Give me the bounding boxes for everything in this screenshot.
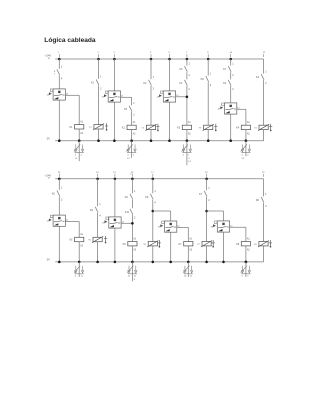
latching coil Y1 — [89, 124, 104, 130]
manual latch marker M3 — [214, 124, 217, 131]
wire C3 bottom to 0V — [170, 232, 172, 262]
wire node to C3 — [153, 211, 171, 221]
wire node to C4 — [207, 211, 224, 221]
wire C3 output to K7 coil — [177, 225, 189, 241]
contact K8 col7 — [201, 72, 212, 87]
wire C2 output to node — [121, 221, 132, 223]
svg-text:Lógica cableada: Lógica cableada — [44, 37, 96, 44]
wire B2 bottom to 0V — [113, 102, 115, 141]
wire B4 output to K4 coil — [237, 107, 246, 125]
column ticks and numbers (top section) — [58, 52, 266, 57]
wire col8 upper — [230, 59, 232, 66]
wire between contacts col8 — [230, 72, 232, 79]
0V rail (top section) — [47, 136, 264, 140]
relay coil K3 — [177, 121, 191, 135]
wire C1 bottom to 0V — [58, 226, 60, 262]
rail junction dots (top) — [58, 58, 232, 61]
contact K7 col8 — [223, 62, 234, 77]
wire C2 bottom to 0V — [114, 228, 116, 262]
latching coil Y5 — [88, 236, 103, 242]
svg-text:K11: K11 — [125, 211, 130, 214]
wire col3 upper — [113, 59, 115, 91]
contact K2 col8 — [223, 80, 234, 91]
wire B3 output to node — [176, 95, 187, 97]
latching coil Y8 — [254, 241, 269, 247]
wire col9 to 0V — [263, 130, 265, 141]
wire K2 coil to 0V — [131, 130, 133, 141]
manual latch marker M2 — [156, 124, 159, 131]
wire K6 coil to 0V — [131, 246, 133, 262]
contact mirror K3 — [182, 139, 192, 165]
wire col9 to latch coil — [263, 80, 265, 125]
wire col2 upper — [98, 59, 100, 79]
contact K3 col6 — [179, 62, 190, 77]
wire between contacts col6 — [186, 72, 188, 79]
relay coil K7 — [179, 237, 193, 251]
latching coil Y6 — [143, 241, 158, 247]
wire col15 upper — [114, 179, 116, 217]
wire B2 output — [121, 95, 132, 105]
svg-text:0V: 0V — [47, 136, 50, 140]
wire B1 bottom to 0V — [58, 100, 60, 141]
wire col19 upper — [206, 179, 208, 191]
latching coil Y4 — [254, 124, 269, 130]
contact K6 col16 — [125, 190, 136, 199]
contact mirror K8 — [241, 261, 251, 278]
contact K5 col13 — [52, 187, 63, 202]
wire K3 coil to 0V — [186, 130, 188, 141]
wire to C1 — [58, 196, 60, 215]
node rung7 — [152, 200, 155, 242]
wire col7 to 0V — [207, 130, 209, 141]
wire col17 to 0V — [152, 246, 154, 262]
relay coil K5 — [69, 233, 83, 247]
manual latch marker M5 — [104, 236, 107, 243]
block B2 — [102, 91, 121, 102]
contact K2 col4 — [143, 76, 154, 91]
block C4 — [211, 221, 230, 232]
node rung6 join — [131, 215, 134, 242]
wire K8 coil to 0V — [245, 246, 247, 262]
node rung8 — [205, 197, 208, 242]
wire C4 bottom to 0V — [223, 232, 225, 262]
S1 designator — [54, 71, 56, 76]
contact K9 col17 — [145, 190, 156, 205]
wire col7 to latch coil — [207, 82, 209, 125]
wire K5 coil to 0V — [78, 242, 80, 262]
relay coil K8 — [236, 237, 250, 251]
wire B4 bottom to 0V — [230, 114, 232, 141]
contact K6 col14 — [90, 203, 101, 218]
contact K7 col19 — [199, 187, 210, 202]
wire to B4 — [230, 86, 232, 103]
contact mirror K2 — [126, 139, 136, 159]
contact K11 col16 — [125, 209, 136, 220]
wire col7 upper — [207, 59, 209, 76]
wire C1 output to K5 coil — [66, 220, 80, 238]
wire col20 from rail end — [263, 179, 265, 197]
wire col20 to latch coil — [263, 203, 265, 242]
0V rail (bottom section) — [47, 258, 264, 262]
wire col17 upper — [152, 179, 154, 194]
0V junction dots (top) — [58, 139, 232, 142]
contact mirror K4 — [241, 139, 251, 159]
contact mirror K5 — [74, 261, 84, 278]
relay coil K6 — [123, 237, 137, 251]
node rung3 join — [186, 86, 189, 125]
wire col19 to 0V — [206, 246, 208, 262]
+24V rail (bottom section) — [45, 173, 264, 179]
wire col4 to latch coil — [150, 86, 152, 125]
block B4 — [218, 103, 237, 114]
contact K8 col20 — [256, 193, 267, 208]
wire col9 from rail end — [263, 59, 265, 74]
manual latch marker M8 — [269, 240, 272, 247]
wire col4 to 0V — [150, 130, 152, 141]
contact K1 col2 — [91, 76, 102, 91]
wire col20 to 0V — [263, 246, 265, 262]
wire K1 coil to 0V — [78, 129, 80, 141]
wire col2 to 0V — [98, 129, 100, 141]
wire B3 bottom to 0V — [169, 102, 171, 141]
wire col14 to latch coil — [97, 213, 99, 238]
relay coil K1 — [69, 120, 83, 134]
wire S1 to B1 — [58, 75, 60, 89]
relay coil K2 — [122, 121, 136, 135]
rail junction dots (bottom) — [58, 178, 208, 181]
contact mirror K6 — [127, 261, 137, 282]
manual latch marker M1 — [105, 123, 108, 130]
wire K4 coil to 0V — [245, 130, 247, 141]
wire col14 to 0V — [97, 242, 99, 262]
contact mirror K1 — [74, 139, 84, 161]
wire col6 upper — [186, 59, 188, 66]
block C3 — [158, 221, 177, 232]
wire between contacts col16 — [131, 200, 133, 209]
0V junction dots (bottom) — [58, 261, 247, 264]
wire B1 output to K1 coil — [66, 93, 80, 124]
column ticks and numbers (bottom section) — [58, 172, 265, 177]
latching coil Y2 — [141, 124, 156, 130]
wire to K2 coil — [131, 112, 133, 125]
wire K7 coil to 0V — [187, 246, 189, 262]
latching coil Y7 — [197, 241, 212, 247]
wire col14 upper — [97, 179, 99, 207]
latching coil Y3 — [199, 124, 214, 130]
wire col4 upper — [150, 59, 152, 79]
block C2 — [102, 217, 121, 228]
wire col16 upper — [131, 179, 133, 194]
wire col13 upper — [58, 179, 60, 190]
block B1 — [47, 89, 66, 100]
wire C4 output to K8 coil — [230, 225, 246, 241]
relay coil K4 — [236, 121, 250, 135]
manual latch marker M4 — [269, 124, 272, 131]
block B3 — [157, 91, 176, 102]
contact K3 on rung2 — [124, 102, 135, 117]
wire col2 to latch coil — [98, 85, 100, 124]
contact K4 col9 — [256, 70, 267, 85]
svg-text:0V: 0V — [47, 258, 50, 262]
contact mirror K7 — [183, 261, 193, 278]
manual latch marker M7 — [212, 240, 215, 247]
wire col5 upper — [169, 59, 171, 91]
contact S1 — [57, 66, 63, 81]
contact K1 col6 — [179, 80, 190, 91]
block C1 — [47, 215, 66, 226]
wire col1 upper — [58, 59, 60, 69]
+24V rail (top section) — [45, 54, 264, 60]
manual latch marker M6 — [158, 240, 161, 247]
